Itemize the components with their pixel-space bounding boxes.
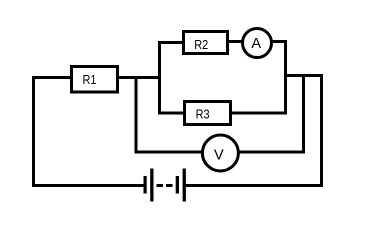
wire: left rail to R2 [161, 41, 183, 44]
wire: R2 to ammeter [229, 40, 243, 43]
voltmeter V [202, 135, 238, 171]
resistor R3 [185, 102, 231, 125]
wire: outer loop right vertical [320, 74, 323, 187]
wire: parallel section left rail vertical [158, 41, 161, 115]
resistor R1 [72, 67, 118, 93]
wire: parallel section right rail vertical [284, 40, 287, 115]
battery cell 2 positive long plate [183, 169, 186, 202]
wire: ammeter to right rail [271, 40, 287, 43]
wire: voltmeter branch left horizontal [135, 151, 204, 154]
svg-text:V: V [214, 147, 224, 163]
battery cell 1 positive long plate [150, 169, 153, 202]
battery cell 2 negative short plate [176, 176, 179, 194]
battery dash 2 [166, 184, 173, 187]
node: junction to voltmeter drop [135, 76, 138, 154]
wire: bottom horizontal left of battery [32, 184, 144, 187]
svg-text:A: A [251, 36, 261, 52]
wire: voltmeter branch right vertical up to top right horizontal [302, 74, 305, 154]
svg-text:R3: R3 [196, 107, 210, 122]
resistor R2 [184, 32, 228, 54]
wire: horizontal from R1 to parallel-section left rail [119, 76, 161, 79]
wire: outer loop left vertical [32, 76, 35, 187]
wire: left branch horizontal from outer loop to R1 [32, 76, 71, 79]
wire: voltmeter branch right horizontal [237, 151, 305, 154]
ammeter A [243, 29, 272, 58]
svg-text:R1: R1 [83, 72, 97, 87]
wire: R3 to right rail [232, 112, 287, 115]
wire: top right horizontal from right rail to outer loop [284, 74, 323, 77]
battery dash 1 [157, 184, 164, 187]
battery cell 1 negative short plate [144, 176, 147, 194]
wire: bottom horizontal right of battery [186, 184, 324, 187]
wire: left rail to R3 [161, 112, 184, 115]
svg-text:R2: R2 [194, 37, 208, 52]
